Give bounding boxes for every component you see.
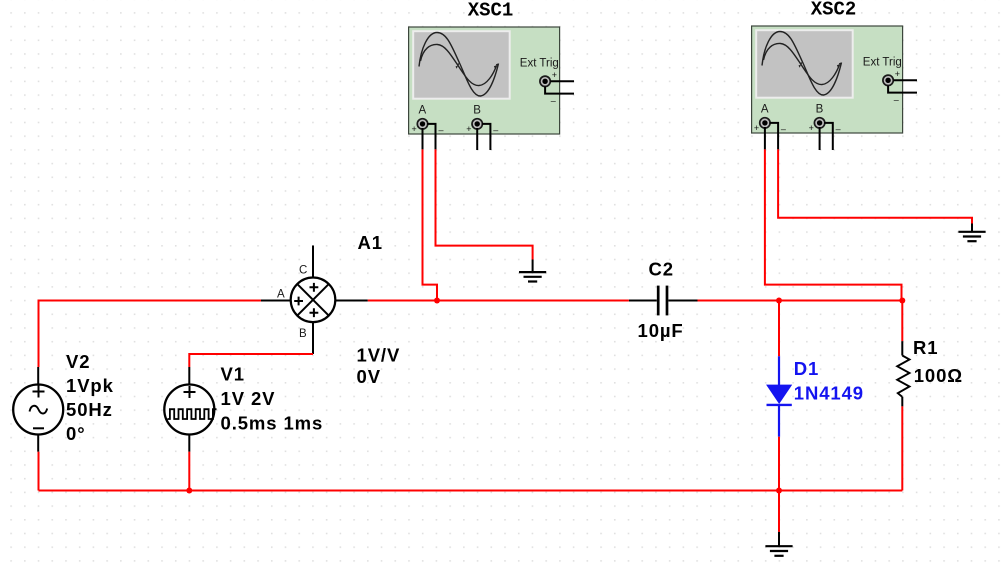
V2 sine glyph [30, 406, 48, 414]
svg-text:+: + [552, 70, 557, 80]
C2 left lead [629, 300, 657, 302]
R1 bottom lead [901, 397, 903, 407]
wire V2 bottom to rail [38, 452, 40, 491]
diode D1 [767, 356, 865, 437]
XSC1 A- pin stub [427, 124, 436, 149]
XSC1 body [409, 27, 560, 134]
junction node at D1 bottom [776, 488, 782, 494]
XSC2 channel B terminal [814, 118, 824, 128]
D1 cathode lead [778, 405, 780, 437]
D1 triangle [767, 385, 791, 403]
wire bottom rail [39, 490, 903, 492]
XSC1 A+ pin stub [422, 128, 424, 149]
A1 pin C (top) [312, 246, 314, 278]
wire bottom node to ground [778, 491, 780, 532]
svg-text:–: – [836, 124, 841, 134]
wire V1 bottom to rail [188, 452, 190, 491]
V1 plus sign [184, 386, 196, 398]
C2 right lead [668, 300, 697, 302]
V1 circle [164, 385, 214, 435]
XSC1 screen sine trace outer [419, 33, 499, 97]
svg-text:50Hz: 50Hz [66, 399, 113, 420]
svg-text:A: A [761, 104, 769, 116]
XSC2 B- pin stub [824, 123, 833, 150]
XSC2 ext trig terminal [883, 75, 893, 85]
wire XSC2 A+ probe [765, 149, 902, 300]
svg-text:Ext Trig: Ext Trig [520, 58, 559, 70]
XSC1 B- pin stub [482, 124, 491, 150]
svg-text:R1: R1 [913, 337, 938, 358]
V2 minus sign [33, 427, 44, 429]
A1 plus top [310, 283, 319, 292]
svg-text:–: – [894, 95, 899, 105]
wire A1 output to C2 [368, 300, 629, 302]
XSC1 ext trig terminal [540, 76, 550, 86]
svg-text:10µF: 10µF [638, 320, 684, 341]
ground GND1 (XSC1) [519, 260, 546, 282]
svg-text:V1: V1 [221, 364, 245, 385]
oscilloscope XSC1 [409, 0, 574, 150]
XSC2 screen sine trace inner [764, 43, 840, 84]
A1 pin A (left) [261, 300, 291, 302]
V1 bottom pin [188, 435, 190, 452]
svg-text:V2: V2 [66, 351, 90, 372]
wire main node to R1 [901, 301, 903, 342]
svg-text:+: + [895, 69, 900, 79]
A1 cross diagonals [297, 284, 328, 315]
V2 plus sign [33, 386, 45, 398]
A1 pin output (right) [335, 300, 368, 302]
A1 plus left [294, 297, 303, 306]
svg-text:C: C [299, 265, 307, 277]
C2 right plate [666, 286, 669, 316]
V2 bottom pin [37, 435, 39, 452]
svg-text:100Ω: 100Ω [914, 365, 963, 386]
wire main node to D1 [778, 301, 780, 357]
XSC1 ext trig - wire [545, 87, 574, 94]
V2 circle [13, 385, 63, 435]
D1 anode lead [778, 356, 780, 385]
AC voltage source V2 [13, 351, 114, 452]
A1 pin B (bottom) [312, 322, 314, 354]
ground GND2 (XSC2) [958, 224, 985, 242]
XSC1 ext trig + wire [550, 80, 574, 82]
C2 left plate [657, 286, 660, 316]
junction node at A1 output [434, 298, 440, 304]
wire XSC1 A- to ground [436, 149, 533, 259]
svg-text:–: – [493, 125, 498, 135]
R1 zigzag [897, 356, 909, 397]
XSC1 B+ pin stub [476, 128, 478, 150]
wire D1 to bottom rail [778, 437, 780, 491]
oscilloscope XSC2 [752, 0, 917, 150]
D1 cathode bar [767, 404, 792, 406]
XSC2 A- pin stub [769, 123, 778, 149]
pulse voltage source V1 [164, 364, 323, 452]
svg-text:A: A [419, 105, 427, 117]
svg-text:D1: D1 [794, 358, 819, 379]
svg-text:B: B [473, 105, 481, 117]
XSC2 trace arrowheads [799, 62, 842, 68]
summing amplifier A1 [261, 232, 400, 387]
A1 plus bottom [310, 308, 319, 317]
ground GND3 (bottom) [765, 532, 792, 556]
V1 square-wave glyph [168, 409, 217, 419]
svg-text:B: B [816, 104, 824, 116]
junction node at R1 top [899, 298, 905, 304]
wire XSC2 A- to ground [778, 149, 972, 223]
XSC2 B+ pin stub [819, 127, 821, 150]
svg-text:C2: C2 [649, 259, 674, 280]
V1 top pin [188, 367, 190, 384]
svg-text:1N4149: 1N4149 [794, 383, 864, 404]
R1 top lead [901, 341, 903, 355]
XSC2 body [752, 26, 903, 133]
XSC1 screen sine trace inner [421, 44, 497, 85]
svg-text:1V/V: 1V/V [357, 345, 401, 366]
svg-text:+: + [466, 124, 471, 134]
svg-text:–: – [439, 125, 444, 135]
XSC2 screen [756, 30, 853, 98]
V2 top pin [37, 367, 39, 384]
svg-text:1Vpk: 1Vpk [66, 375, 114, 396]
svg-text:+: + [754, 123, 759, 133]
XSC2 A+ pin stub [764, 127, 766, 149]
svg-text:B: B [299, 328, 307, 340]
wire V1 top to A1 input B [189, 354, 313, 367]
svg-text:0.5ms 1ms: 0.5ms 1ms [221, 413, 324, 434]
wire C2 to R1 junction [698, 300, 903, 302]
XSC1 trace arrowheads [456, 63, 499, 69]
svg-text:+: + [809, 123, 814, 133]
svg-text:XSC2: XSC2 [811, 0, 857, 21]
XSC1 channel B terminal [472, 119, 482, 129]
svg-text:1V 2V: 1V 2V [221, 388, 276, 409]
XSC2 screen sine trace outer [762, 32, 842, 96]
svg-text:+: + [412, 124, 417, 134]
junction node at D1 top [776, 298, 782, 304]
svg-text:A1: A1 [358, 232, 383, 253]
svg-text:Ext Trig: Ext Trig [863, 57, 902, 69]
capacitor C2 [629, 259, 698, 342]
svg-text:0°: 0° [66, 423, 86, 444]
XSC2 channel A terminal [760, 118, 770, 128]
A1 circle [291, 278, 336, 323]
wire XSC1 A+ probe [423, 149, 438, 300]
svg-text:XSC1: XSC1 [468, 0, 514, 22]
XSC2 ext trig - wire [888, 86, 917, 93]
svg-text:–: – [781, 124, 786, 134]
junction node at V1 bottom [186, 488, 192, 494]
XSC1 channel A terminal [417, 119, 427, 129]
XSC2 ext trig + wire [893, 79, 917, 81]
resistor R1 [897, 337, 963, 406]
wire V2 top to A1 input A [39, 301, 262, 368]
svg-text:–: – [551, 96, 556, 106]
XSC1 screen [413, 31, 510, 99]
wire R1 to bottom rail [901, 406, 903, 490]
svg-text:A: A [277, 289, 285, 301]
svg-text:0V: 0V [357, 366, 381, 387]
